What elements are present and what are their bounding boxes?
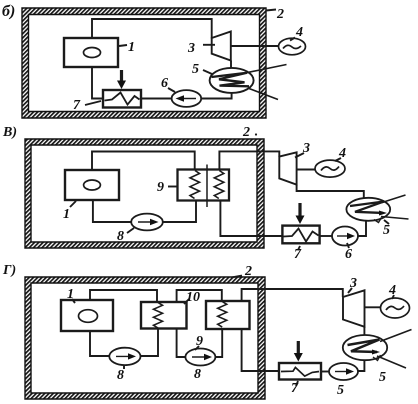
svg-text:5: 5 — [383, 223, 390, 238]
svg-text:5: 5 — [379, 370, 386, 385]
svg-text:8: 8 — [117, 229, 124, 244]
svg-text:2: 2 — [242, 125, 250, 140]
svg-text:Г): Г) — [2, 263, 16, 278]
svg-text:1: 1 — [63, 207, 70, 222]
svg-text:1: 1 — [128, 40, 135, 55]
svg-text:9: 9 — [157, 180, 164, 195]
svg-text:2: 2 — [244, 264, 252, 279]
svg-text:б): б) — [2, 3, 15, 20]
svg-text:8: 8 — [194, 367, 201, 382]
svg-text:В): В) — [2, 125, 17, 140]
svg-text:8: 8 — [117, 368, 124, 383]
svg-text:10: 10 — [186, 290, 200, 305]
svg-text:5: 5 — [337, 383, 344, 398]
svg-text:4: 4 — [388, 283, 396, 298]
svg-text:3: 3 — [302, 141, 310, 156]
svg-text:7: 7 — [73, 98, 81, 113]
svg-text:3: 3 — [349, 276, 357, 291]
svg-text:6: 6 — [161, 76, 168, 91]
svg-text:2: 2 — [276, 7, 284, 22]
svg-text:7: 7 — [291, 381, 299, 396]
svg-text:3: 3 — [187, 41, 195, 56]
svg-text:1: 1 — [67, 287, 74, 302]
svg-text:7: 7 — [294, 247, 302, 262]
svg-text:4: 4 — [338, 146, 346, 161]
svg-text:9: 9 — [196, 334, 203, 349]
svg-text:5: 5 — [192, 62, 199, 77]
svg-text:4: 4 — [295, 25, 303, 40]
svg-text:6: 6 — [345, 247, 352, 262]
